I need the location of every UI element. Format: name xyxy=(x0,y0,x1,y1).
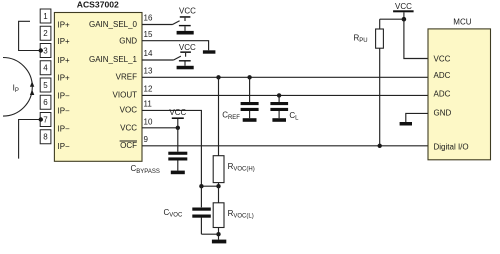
wire RPU to OCF net xyxy=(379,48,381,146)
svg-text:ACS37002: ACS37002 xyxy=(77,0,119,9)
IC U1 ACS37002 body xyxy=(54,0,142,161)
VCC symbol top right xyxy=(393,10,414,19)
wire pin 14 xyxy=(142,59,174,61)
svg-text:6: 6 xyxy=(43,98,48,107)
wire pin 16 xyxy=(142,24,173,26)
svg-text:15: 15 xyxy=(144,30,153,39)
pin 6 box xyxy=(40,95,51,109)
wire VCC to RPU xyxy=(380,18,404,20)
ground CREF xyxy=(243,118,257,122)
wire RVOC(L) to ground node xyxy=(218,228,220,240)
svg-text:IP+: IP+ xyxy=(58,21,71,30)
resistor RVOC(L) xyxy=(213,203,224,228)
wire VIOUT net xyxy=(142,94,428,96)
svg-text:VCC: VCC xyxy=(169,108,186,117)
svg-text:IP−: IP− xyxy=(58,107,71,116)
svg-text:VIOUT: VIOUT xyxy=(113,90,138,99)
current arrow 1 xyxy=(30,81,34,87)
switch S2 VCC contact xyxy=(180,51,191,56)
ground S2 xyxy=(177,66,194,70)
svg-text:GND: GND xyxy=(119,36,137,45)
capacitor CREF xyxy=(241,77,259,118)
svg-text:MCU: MCU xyxy=(453,18,471,27)
wire RPU top xyxy=(379,19,381,29)
current arrow 2 xyxy=(30,90,34,96)
wire pin 10 VCC xyxy=(142,127,178,129)
capacitor CVOC xyxy=(192,186,218,234)
svg-text:VCC: VCC xyxy=(120,123,137,132)
wire VCC to MCU xyxy=(404,19,428,58)
wire VREF net xyxy=(142,76,428,78)
svg-text:IP−: IP− xyxy=(58,142,71,151)
OCF overline xyxy=(120,140,137,142)
node VREF/CREF xyxy=(247,75,251,79)
svg-text:2: 2 xyxy=(43,29,48,38)
ground pin 15 xyxy=(203,50,216,53)
svg-text:5: 5 xyxy=(43,81,48,90)
svg-text:IP−: IP− xyxy=(58,92,71,101)
capacitor CBYPASS xyxy=(168,128,187,171)
svg-text:13: 13 xyxy=(144,66,153,75)
switch S1 lever xyxy=(173,21,180,25)
svg-text:9: 9 xyxy=(144,135,149,144)
svg-text:IP+: IP+ xyxy=(58,56,71,65)
pin 8 box xyxy=(40,130,51,144)
switch S1 GND contact xyxy=(179,25,191,31)
svg-text:VCC: VCC xyxy=(395,2,412,11)
node at pin 7 xyxy=(39,117,43,121)
node divider right xyxy=(216,184,220,188)
node ground junction xyxy=(216,232,220,236)
svg-text:VCC: VCC xyxy=(179,43,196,52)
svg-text:IP−: IP− xyxy=(58,124,71,133)
ground MCU xyxy=(400,122,412,126)
capacitor CL xyxy=(270,95,288,118)
resistor RPU xyxy=(376,29,384,48)
wire from pin 7 down-left xyxy=(19,120,41,159)
node RPU/OCF xyxy=(378,144,382,148)
svg-text:ADC: ADC xyxy=(434,71,451,80)
svg-text:16: 16 xyxy=(144,14,153,23)
svg-text:14: 14 xyxy=(144,49,153,58)
wire RVOC(H) to node xyxy=(218,183,220,187)
switch S2 lever xyxy=(174,56,181,60)
svg-text:7: 7 xyxy=(43,115,48,124)
ground CBYPASS xyxy=(171,171,185,175)
wire MCU GND xyxy=(406,113,428,122)
svg-text:ADC: ADC xyxy=(434,90,451,99)
svg-text:GAIN_SEL_1: GAIN_SEL_1 xyxy=(89,55,138,64)
node at pin 3 xyxy=(39,48,43,52)
svg-text:OCF: OCF xyxy=(120,141,137,150)
wire to pin 1 stub xyxy=(19,21,41,50)
svg-text:Digital I/O: Digital I/O xyxy=(434,142,469,151)
resistor RVOC(H) xyxy=(213,156,224,183)
switch S2 GND contact xyxy=(179,60,191,66)
node VCC xyxy=(402,17,407,22)
wire node to RVOC(L) xyxy=(218,186,220,203)
svg-text:10: 10 xyxy=(144,117,153,126)
svg-text:IP+: IP+ xyxy=(58,74,71,83)
IC right pin labels xyxy=(89,20,138,150)
svg-text:VCC: VCC xyxy=(434,54,451,63)
svg-text:4: 4 xyxy=(43,64,48,73)
wire OCF net xyxy=(142,145,428,147)
right pin numbers xyxy=(144,14,153,144)
pin 1 box xyxy=(40,9,51,23)
svg-text:VREF: VREF xyxy=(116,73,137,82)
svg-text:GND: GND xyxy=(434,109,452,118)
node pin10/CBYPASS xyxy=(176,126,180,130)
svg-text:11: 11 xyxy=(144,100,153,109)
pin 3 box xyxy=(40,44,51,58)
svg-text:GAIN_SEL_0: GAIN_SEL_0 xyxy=(89,20,138,29)
wire VREF to RVOC(H) xyxy=(218,77,220,155)
ground CL xyxy=(272,118,286,122)
pin 7 box xyxy=(40,113,51,127)
svg-text:VOC: VOC xyxy=(120,106,138,115)
wire VOC from pin 11 xyxy=(142,110,201,186)
MCU body xyxy=(428,18,491,160)
svg-text:VCC: VCC xyxy=(179,6,196,15)
ground divider xyxy=(212,240,226,244)
svg-text:3: 3 xyxy=(43,46,48,55)
pin 2 box xyxy=(40,26,51,40)
wire node VOC row xyxy=(201,185,218,187)
IC left pin labels IP+/IP- xyxy=(58,21,71,151)
VCC symbol pin 10 xyxy=(172,117,184,127)
pin 5 box xyxy=(40,78,51,92)
node VIOUT/CL xyxy=(277,93,281,97)
wire pin 15 xyxy=(142,41,209,51)
svg-text:1: 1 xyxy=(43,12,48,21)
node VREF/RVOC xyxy=(216,75,220,79)
svg-text:12: 12 xyxy=(144,85,153,94)
primary current loop arc xyxy=(3,58,32,117)
MCU pin labels xyxy=(434,54,469,151)
node VOC/divider left xyxy=(199,184,203,188)
ground S1 xyxy=(177,31,194,35)
pin 4 box xyxy=(40,61,51,75)
svg-text:IP+: IP+ xyxy=(58,37,71,46)
svg-text:8: 8 xyxy=(43,133,48,142)
switch S1 VCC contact xyxy=(180,16,191,21)
